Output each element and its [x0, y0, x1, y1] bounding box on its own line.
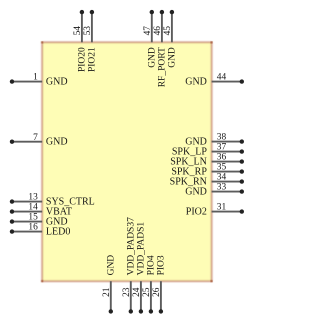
pin name RF_PORT (pin 46)	[158, 47, 168, 87]
svg-text:14: 14	[28, 203, 38, 213]
svg-text:54: 54	[73, 26, 83, 36]
svg-text:37: 37	[217, 143, 227, 153]
svg-text:RF_PORT: RF_PORT	[158, 47, 168, 87]
pin 25 wire (bottom)	[149, 281, 153, 313]
pin name PIO4 (pin 25)	[147, 255, 157, 275]
svg-text:36: 36	[217, 153, 227, 163]
pin 14 wire (left)	[10, 209, 42, 213]
pin name GND (pin 47)	[147, 47, 157, 68]
pin number 1	[33, 73, 38, 83]
pin 46 wire (top)	[160, 10, 164, 42]
svg-text:7: 7	[33, 133, 38, 143]
svg-text:16: 16	[28, 223, 38, 233]
pin name SPK_LP (pin 37)	[172, 147, 207, 158]
svg-text:21: 21	[102, 287, 112, 297]
IC symbol body (component outline)	[42, 42, 211, 281]
pin name VDD_PADS37 (pin 23)	[126, 217, 136, 275]
pin name SPK_RN (pin 34)	[170, 177, 207, 188]
svg-text:25: 25	[142, 287, 152, 297]
pin number 53	[83, 26, 93, 36]
svg-text:31: 31	[217, 203, 227, 213]
svg-text:45: 45	[163, 26, 173, 36]
pin number 14	[28, 203, 38, 213]
pin name GND (pin 7)	[46, 137, 68, 148]
pin name PIO20 (pin 54)	[78, 47, 88, 72]
pin 35 wire (right)	[212, 169, 244, 173]
pin name GND (pin 45)	[168, 47, 178, 68]
pin number 38	[217, 133, 227, 143]
pin number 25	[142, 287, 152, 297]
pin name SYS_CTRL (pin 13)	[46, 197, 95, 208]
pin number 46	[153, 26, 163, 36]
svg-text:15: 15	[28, 213, 38, 223]
pin name SPK_RP (pin 35)	[171, 167, 207, 178]
svg-text:GND: GND	[185, 187, 207, 198]
pin number 26	[152, 287, 162, 297]
pin 31 wire (right)	[212, 209, 244, 213]
pin number 47	[143, 26, 153, 36]
pin number 45	[163, 26, 173, 36]
pin name PIO2 (pin 31)	[186, 207, 207, 218]
svg-text:53: 53	[83, 26, 93, 36]
pin 7 wire (left)	[10, 140, 42, 144]
svg-text:GND: GND	[168, 47, 178, 68]
pin 1 wire (left)	[10, 79, 42, 83]
svg-text:47: 47	[143, 26, 153, 36]
svg-text:26: 26	[152, 287, 162, 297]
pin 34 wire (right)	[212, 179, 244, 183]
svg-text:38: 38	[217, 133, 227, 143]
pin 33 wire (right)	[212, 189, 244, 193]
svg-text:VDD_PADS37: VDD_PADS37	[126, 217, 136, 275]
svg-text:1: 1	[33, 73, 38, 83]
pin number 44	[217, 73, 227, 83]
pin number 36	[217, 153, 227, 163]
svg-text:LED0: LED0	[46, 227, 70, 238]
svg-text:GND: GND	[46, 77, 68, 88]
pin name LED0 (pin 16)	[46, 227, 70, 238]
pin name VBAT (pin 14)	[46, 207, 72, 218]
pin name GND (pin 1)	[46, 77, 68, 88]
pin number 23	[122, 287, 132, 297]
svg-text:PIO4: PIO4	[147, 255, 157, 275]
svg-text:13: 13	[28, 193, 38, 203]
svg-text:GND: GND	[147, 47, 157, 68]
svg-text:24: 24	[132, 287, 142, 297]
pin 53 wire (top)	[90, 10, 94, 42]
pin 21 wire (bottom)	[109, 281, 113, 313]
svg-text:GND: GND	[106, 255, 116, 276]
pin name GND (pin 15)	[46, 217, 68, 228]
pin number 35	[217, 163, 227, 173]
pin name PIO3 (pin 26)	[157, 255, 167, 275]
pin 23 wire (bottom)	[129, 281, 133, 313]
pin number 16	[28, 223, 38, 233]
svg-text:23: 23	[122, 287, 132, 297]
svg-text:PIO2: PIO2	[186, 207, 207, 218]
pin 36 wire (right)	[212, 159, 244, 163]
svg-text:VDD_PADS1: VDD_PADS1	[137, 222, 147, 276]
pin 15 wire (left)	[10, 219, 42, 223]
pin 13 wire (left)	[10, 199, 42, 203]
pin 47 wire (top)	[150, 10, 154, 42]
pin number 54	[73, 26, 83, 36]
pin name GND (pin 38)	[185, 137, 207, 148]
pin name VDD_PADS1 (pin 24)	[137, 222, 147, 276]
pin number 37	[217, 143, 227, 153]
svg-text:GND: GND	[46, 137, 68, 148]
pin name PIO21 (pin 53)	[88, 47, 98, 72]
svg-text:35: 35	[217, 163, 227, 173]
pin 26 wire (bottom)	[159, 281, 163, 313]
pin number 34	[217, 173, 227, 183]
pin name SPK_LN (pin 36)	[170, 157, 207, 168]
pin 38 wire (right)	[212, 139, 244, 143]
pin number 21	[102, 287, 112, 297]
pin 54 wire (top)	[80, 10, 84, 42]
pin number 33	[217, 183, 227, 193]
svg-text:33: 33	[217, 183, 227, 193]
pin 37 wire (right)	[212, 149, 244, 153]
pin 16 wire (left)	[10, 229, 42, 233]
svg-text:PIO20: PIO20	[78, 47, 88, 72]
pin number 15	[28, 213, 38, 223]
svg-text:GND: GND	[185, 77, 207, 88]
svg-text:PIO3: PIO3	[157, 255, 167, 275]
pin number 13	[28, 193, 38, 203]
svg-text:44: 44	[217, 73, 227, 83]
pin number 24	[132, 287, 142, 297]
svg-text:34: 34	[217, 173, 227, 183]
svg-text:PIO21: PIO21	[88, 47, 98, 72]
pin 24 wire (bottom)	[139, 281, 143, 313]
pin 44 wire (right)	[212, 79, 244, 83]
pin name GND (pin 33)	[185, 187, 207, 198]
svg-text:46: 46	[153, 26, 163, 36]
pin 45 wire (top)	[170, 10, 174, 42]
pin number 31	[217, 203, 227, 213]
pin number 7	[33, 133, 38, 143]
pin name GND (pin 44)	[185, 77, 207, 88]
pin name GND (pin 21)	[106, 255, 116, 276]
